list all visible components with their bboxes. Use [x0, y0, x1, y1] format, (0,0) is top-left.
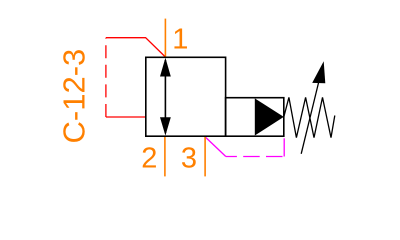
valve body box — [146, 57, 226, 136]
wire: red top horizontal + diagonal to port 1 — [106, 38, 165, 57]
wire: port 1 orange line — [164, 19, 166, 57]
svg-text:1: 1 — [172, 24, 188, 56]
flow path arrowhead down — [160, 117, 171, 135]
spring — [284, 97, 335, 137]
svg-text:2: 2 — [141, 143, 157, 175]
wire: port 3 orange line — [204, 136, 206, 176]
wire: red pilot drain top horizontal — [105, 38, 107, 117]
pilot poppet triangle — [255, 98, 284, 135]
svg-text:C-12-3: C-12-3 — [56, 49, 91, 144]
adjustment arrow shaft — [301, 80, 319, 154]
flow path arrowhead up — [160, 58, 171, 77]
flow path double arrow shaft — [164, 60, 166, 133]
wire: port 2 orange line — [164, 136, 166, 176]
wire: red bottom horizontal to valve body — [106, 116, 146, 118]
wire: magenta pilot line diagonal from port 3 — [205, 137, 226, 157]
wire: magenta pilot line dashed horizontal — [226, 156, 284, 158]
wire: magenta pilot line vertical up to pilot box — [283, 138, 285, 156]
svg-text:3: 3 — [181, 143, 197, 175]
adjustment arrowhead — [312, 61, 325, 83]
pilot box — [226, 98, 284, 137]
